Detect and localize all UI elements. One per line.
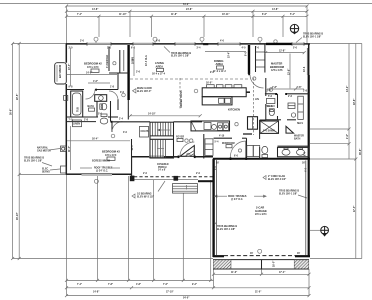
hall door arcs: [86, 90, 119, 101]
garage roof trusses note: [215, 195, 267, 201]
svg-text:13'-6: 13'-6: [304, 66, 306, 72]
svg-text:18'-10": 18'-10": [17, 212, 19, 220]
svg-text:14'-10": 14'-10": [148, 113, 156, 116]
svg-text:COVERED: COVERED: [157, 164, 169, 166]
kitchen wall stubs: [243, 92, 252, 134]
living extra tags: [0, 0, 1, 1]
wall: garage bottom stubs and door dashed: [213, 255, 310, 258]
svg-text:12'8 x 13'6: 12'8 x 13'6: [271, 70, 283, 72]
WIC rod lines: [267, 105, 276, 107]
svg-text:PORCH: PORCH: [158, 167, 167, 169]
corner pantry arc below dining wall: [250, 75, 264, 89]
wall: garage left: [212, 159, 214, 257]
svg-text:MASTER: MASTER: [294, 135, 304, 138]
bottom dim string 1: [65, 279, 214, 286]
master right wall rotated dim: [304, 66, 306, 72]
right dim connectors: [310, 44, 362, 259]
svg-text:9'-2": 9'-2": [192, 284, 197, 286]
front door leaf and swing: [180, 142, 194, 157]
mudroom circled tag: [235, 123, 238, 126]
svg-text:14'-8": 14'-8": [272, 8, 278, 11]
garage wall inner faces: [216, 160, 305, 256]
master lower dim: [267, 87, 304, 91]
left dim line inner: [17, 42, 21, 260]
svg-text:NATURAL: NATURAL: [37, 147, 49, 150]
bottom extension verticals: [67, 175, 310, 296]
bedroom2 right wall: [117, 73, 119, 90]
hall left wall segment: [117, 99, 119, 110]
covered porch label: [157, 164, 169, 172]
svg-text:ELEV 100'-1 1/8": ELEV 100'-1 1/8": [217, 229, 235, 231]
extension verticals top: [67, 6, 308, 44]
room label bedroom3: [102, 150, 120, 161]
svg-text:1/2 BEARING: 1/2 BEARING: [137, 193, 152, 196]
master vertical dim: [288, 54, 290, 89]
dim line second string top: [65, 8, 309, 13]
stairs: [150, 122, 174, 158]
bottom dim string 2: [65, 286, 311, 293]
elec service callout: [42, 166, 66, 173]
svg-text:16': 16': [297, 253, 301, 255]
room label kitchen: [228, 108, 240, 112]
thick wall dining/master: [248, 45, 250, 74]
wall: top exterior with windows: [66, 43, 310, 45]
svg-text:KITCHEN: KITCHEN: [228, 108, 240, 112]
bath2 toilet: [100, 103, 107, 110]
svg-text:36'-8": 36'-8": [360, 149, 362, 155]
svg-text:54'-0": 54'-0": [183, 3, 189, 6]
bedroom3 interior dim: [67, 138, 130, 141]
gas meter callout: [37, 146, 66, 152]
porch steps: [173, 184, 198, 194]
svg-text:@ 24" O.C.: @ 24" O.C.: [231, 198, 243, 201]
bath2 south wall: [66, 116, 118, 118]
svg-text:14'-8": 14'-8": [92, 8, 98, 11]
main floor elev note: [133, 87, 153, 93]
hall smudges: [98, 92, 128, 134]
svg-text:14'-8": 14'-8": [93, 290, 99, 293]
hall circled tags: [111, 88, 273, 138]
svg-text:ELEV 100'-1 1/8": ELEV 100'-1 1/8": [279, 193, 297, 195]
half bearing note below porch: [132, 181, 165, 198]
kitchen east counter with range: [248, 117, 258, 130]
svg-text:14'-0": 14'-0": [86, 71, 92, 74]
extra tiny callouts top-left: [80, 40, 260, 75]
bedroom3 right wall: [131, 139, 133, 175]
svg-text:24'-8": 24'-8": [186, 8, 192, 11]
svg-text:ELEV 100'-0": ELEV 100'-0": [137, 91, 151, 93]
svg-text:29'-5": 29'-5": [17, 94, 19, 100]
garage trus bearing note: [279, 190, 307, 199]
svg-text:TRUS BEARING B: TRUS BEARING B: [171, 52, 191, 55]
left wall tiny notes: [69, 120, 89, 122]
grid bubble 2: [153, 37, 157, 43]
window sill ticks top wall: [87, 42, 304, 46]
garage interior vert dim: [0, 0, 1, 1]
mudroom garage door swing: [230, 141, 246, 158]
svg-text:ELEC: ELEC: [42, 169, 49, 171]
svg-text:10'-11": 10'-11": [222, 14, 229, 16]
dining window tag: [203, 43, 208, 45]
svg-text:ELEV 100'-1 1/8": ELEV 100'-1 1/8": [171, 56, 189, 58]
wall: bottom-left exterior with bedroom3 window: [66, 174, 132, 176]
island sink counter: [202, 97, 232, 105]
svg-text:11'-0": 11'-0": [69, 146, 71, 152]
svg-text:BATH: BATH: [88, 105, 95, 108]
bedroom3 left rotated dim: [69, 126, 71, 170]
svg-text:17'-0": 17'-0": [354, 206, 356, 212]
svg-text:2'-8": 2'-8": [297, 87, 302, 89]
WIC shelves: [266, 99, 275, 109]
door jamb blocks: [95, 73, 287, 160]
svg-text:14' x 8': 14' x 8': [158, 169, 166, 172]
room label living: [152, 61, 166, 75]
svg-text:GIRDER TRUSS: GIRDER TRUSS: [181, 90, 183, 108]
svg-text:7'-4": 7'-4": [77, 13, 82, 16]
grid bubble 3: [200, 37, 204, 43]
tiny dim texts scattered: [69, 47, 308, 158]
svg-text:5'-0 SHWR: 5'-0 SHWR: [263, 131, 275, 133]
living left tiny dims: [133, 56, 141, 73]
garage top corner dims: [214, 165, 308, 172]
svg-text:2" CONC SLAB: 2" CONC SLAB: [268, 175, 285, 178]
sheet top edge line: [0, 3, 372, 5]
svg-text:23'4 x 23'4: 23'4 x 23'4: [255, 213, 267, 216]
svg-text:TUB: TUB: [78, 107, 80, 112]
garage door circled tag: [258, 249, 262, 253]
svg-text:12'-8": 12'-8": [279, 50, 285, 52]
bedroom2 interior dim: [67, 71, 117, 83]
svg-text:6'-6": 6'-6": [262, 14, 267, 16]
svg-text:ELEV 99'-2 1/2": ELEV 99'-2 1/2": [137, 196, 154, 198]
grid bubble 4: [258, 37, 262, 43]
stair hall top wall: [112, 121, 202, 123]
svg-text:ELEV 100'-1 1/8": ELEV 100'-1 1/8": [24, 160, 42, 162]
svg-text:21'-0": 21'-0": [255, 291, 261, 293]
svg-text:11'-0: 11'-0: [132, 145, 134, 151]
svg-text:13'0 x 11'0: 13'0 x 11'0: [105, 155, 117, 157]
svg-text:ELEV 100'-1 1/8": ELEV 100'-1 1/8": [303, 36, 321, 38]
master WC toilet: [269, 109, 274, 116]
svg-text:@ 24" O.C.: @ 24" O.C.: [96, 169, 108, 172]
svg-text:54'-0": 54'-0": [183, 296, 189, 299]
svg-text:10'-0": 10'-0": [69, 64, 71, 70]
bay window bump master tub: [55, 63, 67, 84]
porch inner dim: [143, 173, 201, 175]
svg-text:TRUS BEARING B: TRUS BEARING B: [303, 33, 323, 36]
svg-text:17'-10": 17'-10": [166, 291, 174, 293]
master bath partitions: [266, 94, 296, 120]
svg-text:13'-6": 13'-6": [288, 69, 290, 75]
foyer tags: [185, 139, 193, 142]
svg-text:BATH: BATH: [294, 137, 301, 140]
garage left wall trus note: [215, 222, 238, 231]
kitchen dims: [206, 83, 212, 85]
svg-text:COATS: COATS: [141, 130, 149, 133]
room label mudroom: [222, 143, 235, 148]
girder truss dashed line kitchen: [252, 78, 254, 135]
living rotated clg note: [146, 55, 148, 66]
svg-text:16'-0": 16'-0": [206, 83, 212, 85]
svg-text:LINEN: LINEN: [73, 124, 80, 126]
svg-text:BEDROOM #2: BEDROOM #2: [84, 62, 102, 66]
kitchen island with stools: [202, 85, 246, 97]
mudroom/laundry divider: [246, 138, 248, 159]
svg-text:TRUS BEARING B: TRUS BEARING B: [279, 190, 299, 193]
bath2 tub: [71, 91, 83, 117]
svg-text:16'-4 x 17'-4: 16'-4 x 17'-4: [152, 73, 166, 76]
svg-text:11'-0 x 11'-2: 11'-0 x 11'-2: [213, 71, 226, 73]
small dim 16' garage left: [216, 163, 306, 256]
note: trus bearing top right: [296, 33, 323, 43]
wall: master suite / garage boundary: [213, 158, 310, 160]
laundry toilet: [262, 146, 268, 157]
bottom dim overall 54'-0": [65, 294, 311, 299]
svg-text:3'-0 BIFOLD: 3'-0 BIFOLD: [107, 54, 109, 68]
svg-text:11'-8": 11'-8": [171, 14, 177, 16]
svg-text:36'-8": 36'-8": [11, 109, 13, 115]
svg-text:EGRESS WNDW: EGRESS WNDW: [92, 161, 111, 163]
room label dining: [213, 59, 226, 73]
svg-text:13'0 x 10'0: 13'0 x 10'0: [87, 67, 99, 69]
living trus bearing callout: [164, 47, 191, 58]
svg-text:7'-8": 7'-8": [108, 284, 113, 286]
svg-text:LIN: LIN: [255, 99, 259, 101]
svg-text:13'-0 CLG: 13'-0 CLG: [146, 55, 148, 66]
svg-text:AREA: AREA: [156, 65, 164, 69]
svg-text:AREA: AREA: [216, 62, 224, 66]
svg-text:16'-0": 16'-0": [274, 261, 276, 267]
circled tag bedroom3 window: [94, 179, 98, 183]
svg-text:TRUS BEARING B: TRUS BEARING B: [217, 225, 237, 228]
porch west edge: [131, 157, 133, 176]
tall linen cabinet: [298, 96, 304, 119]
svg-text:16'-4": 16'-4": [92, 138, 98, 141]
svg-text:11'-10": 11'-10": [119, 14, 126, 16]
left dim line outer: [11, 42, 15, 260]
svg-text:19'-8": 19'-8": [354, 99, 356, 105]
right dim line a: [346, 44, 351, 160]
hall/WC walls: [97, 101, 111, 122]
master vanity double sinks: [278, 147, 309, 156]
svg-text:SERVS: SERVS: [42, 171, 50, 173]
master bath label: [294, 135, 304, 141]
svg-text:TRUS BEARING B: TRUS BEARING B: [24, 157, 44, 160]
thick shear wall left of living: [127, 45, 130, 120]
bath door triangle: [286, 126, 294, 133]
garage apron slab with hatched ends: [213, 260, 309, 269]
bedroom2 left rotated dim: [69, 48, 71, 86]
room label bedroom2: [84, 62, 102, 73]
window tag at thick wall: [274, 40, 277, 43]
svg-text:SHLV: SHLV: [297, 123, 303, 125]
bottom dim garage string: [212, 271, 311, 276]
bath2 vanity: [88, 95, 107, 112]
washer dryer against garage wall: [247, 146, 260, 157]
grid bubble 1: [94, 37, 98, 43]
svg-text:ELEV 100'-0 1/2": ELEV 100'-0 1/2": [268, 179, 286, 181]
room label wic2: [255, 99, 259, 101]
svg-text:4'-6": 4'-6": [93, 80, 98, 83]
svg-text:BAY WNDW: BAY WNDW: [59, 64, 62, 78]
bedroom2/bath2 wall: [66, 89, 118, 91]
dining interior dims: [264, 50, 306, 54]
svg-text:7'-6": 7'-6": [163, 284, 168, 286]
svg-text:14'-2": 14'-2": [346, 86, 349, 92]
living/dining dashed ceiling line: [130, 78, 249, 80]
dim line third string top: [65, 13, 309, 18]
mudroom north wall: [214, 137, 247, 139]
linen shelves: [288, 103, 296, 117]
left dim connectors: [13, 44, 213, 259]
svg-text:16'-8": 16'-8": [132, 58, 134, 64]
room label master bedroom: [270, 62, 285, 73]
master shower: [260, 121, 279, 133]
svg-text:MAIN FLOOR: MAIN FLOOR: [137, 87, 152, 90]
svg-text:GARAGE: GARAGE: [255, 209, 267, 213]
svg-text:5'-4": 5'-4": [290, 13, 295, 16]
master bedroom west wall: [264, 45, 266, 73]
right dim line c: [360, 44, 362, 259]
snack bar counter: [191, 121, 230, 131]
living bottom dim line: [129, 113, 202, 118]
garage label: [255, 206, 267, 217]
svg-text:11'-6": 11'-6": [231, 272, 237, 274]
bedroom3 top wall: [66, 121, 96, 123]
wall: right exterior: [307, 44, 308, 258]
right dim line b: [354, 44, 358, 259]
vanity back wall: [278, 145, 309, 147]
hall WC toilet: [100, 114, 108, 124]
svg-text:17'-4": 17'-4": [279, 271, 285, 274]
svg-text:7'-4": 7'-4": [77, 283, 82, 286]
bedroom2 door swing: [107, 47, 128, 74]
linen closet bedroom hall: [73, 120, 82, 127]
svg-text:BEDROOM: BEDROOM: [270, 65, 285, 69]
wall: house south (porch side) with front door and window: [132, 156, 214, 157]
bedroom3 notes: [80, 161, 120, 173]
bath towel marks: [0, 0, 1, 1]
dim line 54'-0" overall top: [65, 3, 309, 8]
left wall window marker: [64, 96, 68, 101]
living interior vertical dim: [132, 48, 134, 76]
porch slab edge band with posts: [130, 176, 214, 182]
room label foyer: [176, 137, 184, 142]
coats closet: [140, 126, 149, 137]
bedroom3 door swing: [112, 122, 122, 132]
dining dim text: [205, 51, 248, 58]
svg-text:4'-10: 4'-10: [219, 135, 225, 138]
master bath top dims: [268, 96, 303, 125]
svg-text:2'-6": 2'-6": [347, 134, 349, 139]
svg-text:10'-4": 10'-4": [228, 52, 231, 58]
conc slab note: [263, 175, 286, 181]
wall: left exterior: [65, 44, 67, 175]
svg-text:16': 16': [250, 253, 254, 255]
svg-text:BEDROOM #3: BEDROOM #3: [102, 150, 120, 154]
stair label: [0, 0, 1, 1]
vanity faucets: [284, 148, 303, 150]
circled tag porch: [0, 0, 1, 1]
girder truss dashed line living: [180, 78, 183, 110]
benchmark crosshair symbol top right: [290, 24, 298, 34]
trus bearing left callout: [24, 157, 52, 167]
kitchen east wall: [260, 78, 266, 159]
master suite north bath wall: [265, 93, 309, 95]
svg-text:ROOF TRUSSES: ROOF TRUSSES: [228, 196, 247, 198]
laundry appliances: [218, 123, 229, 138]
svg-text:4'-8": 4'-8": [136, 283, 141, 286]
hutch closet shelves dining/master: [256, 46, 265, 72]
svg-text:16': 16': [302, 163, 306, 165]
foyer east wall and mud bench: [204, 134, 213, 159]
benchmark symbol right of garage: [310, 226, 329, 236]
